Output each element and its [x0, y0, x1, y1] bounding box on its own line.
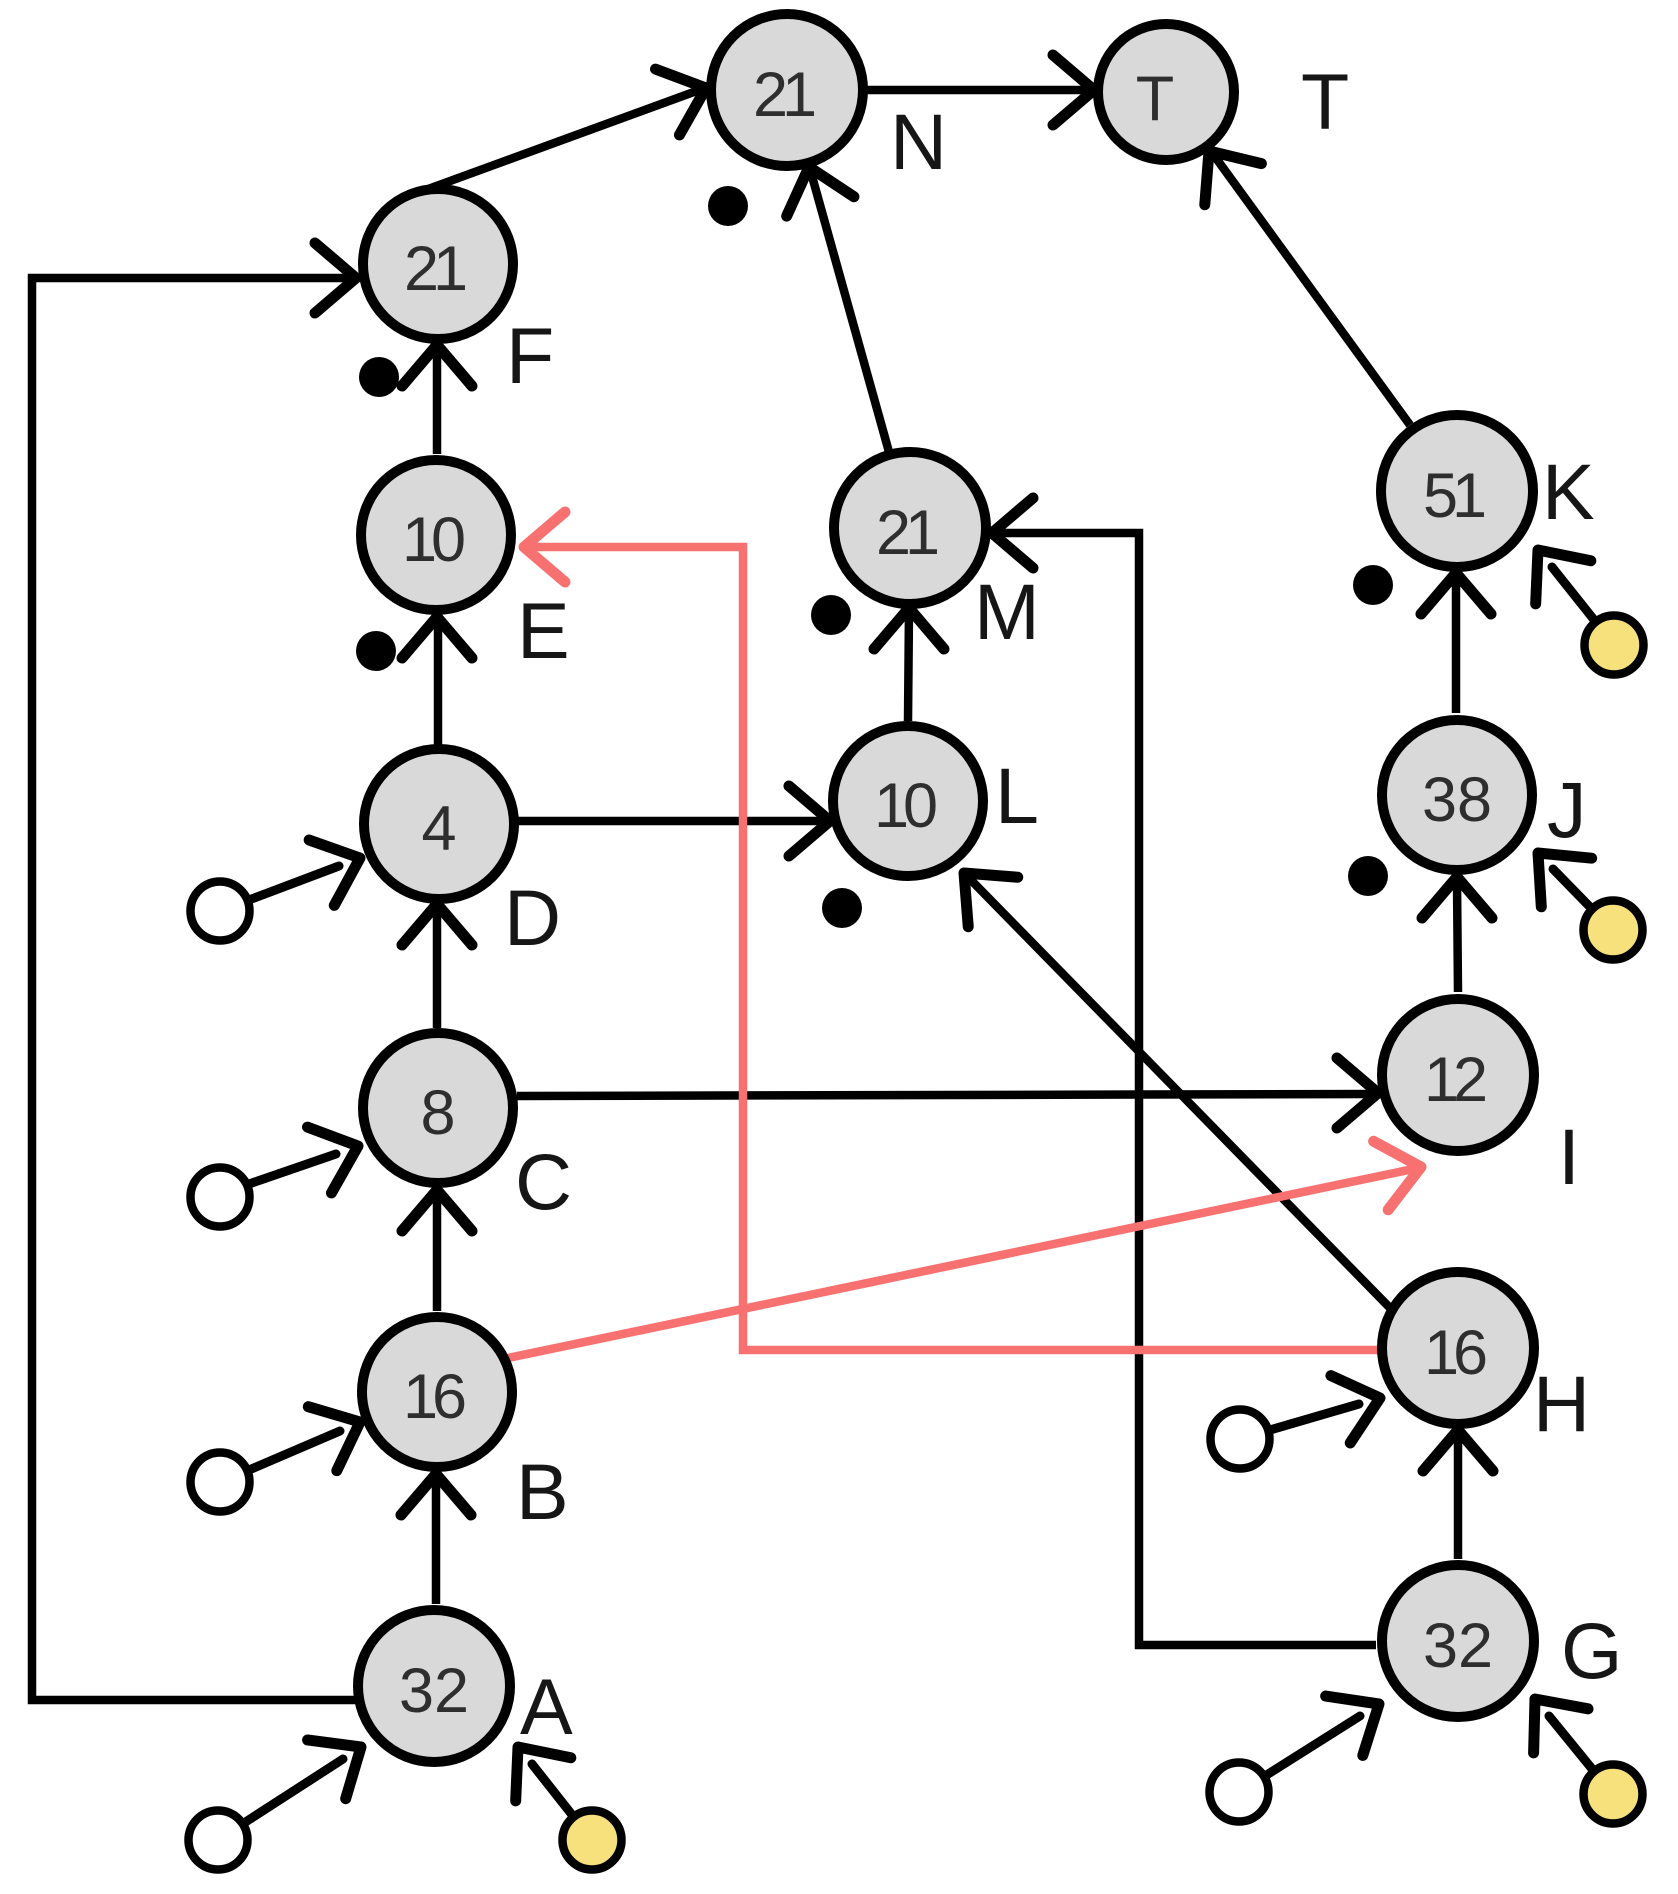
arrowhead into M from L	[874, 608, 944, 649]
arrowhead into I from C	[1337, 1058, 1378, 1128]
arrowhead into H from white input	[1331, 1364, 1390, 1443]
arrowhead into J from I	[1422, 877, 1492, 918]
svg-text:32: 32	[1423, 1611, 1493, 1681]
arrowhead into K from yellow input	[1510, 528, 1590, 603]
wire white input to C	[249, 1154, 336, 1184]
wire yellow input to J	[1553, 869, 1591, 908]
node T	[1098, 24, 1234, 160]
svg-text:21: 21	[876, 498, 937, 568]
white input circle for H	[1211, 1410, 1270, 1469]
dot marker at J	[1348, 856, 1388, 896]
arrowhead into F from loop	[315, 243, 356, 313]
svg-text:B: B	[516, 1447, 569, 1536]
svg-text:10: 10	[402, 505, 464, 575]
arrowhead into K from J	[1421, 573, 1491, 614]
arrowhead into A from yellow input	[490, 1725, 570, 1800]
svg-text:38: 38	[1422, 765, 1492, 835]
white input circle for B	[191, 1453, 250, 1512]
yellow input circle for J	[1584, 901, 1643, 960]
dot marker at M	[811, 595, 851, 635]
svg-text:E: E	[517, 586, 570, 675]
svg-text:K: K	[1542, 447, 1595, 536]
wire white input to B	[249, 1431, 340, 1470]
svg-text:21: 21	[404, 234, 465, 304]
arrowhead into T from K	[1181, 130, 1262, 204]
node E	[361, 460, 511, 610]
node H	[1382, 1272, 1534, 1424]
arrowhead into D from C	[402, 904, 472, 945]
svg-text:10: 10	[874, 771, 936, 841]
wire yellow input to K	[1552, 567, 1595, 621]
svg-text:12: 12	[1424, 1045, 1485, 1115]
wire K to T	[1213, 154, 1410, 425]
yellow input circle for G	[1584, 1765, 1643, 1824]
svg-text:T: T	[1301, 57, 1349, 146]
svg-text:N: N	[890, 97, 947, 186]
svg-text:F: F	[506, 311, 554, 400]
white input circle for C	[191, 1168, 250, 1227]
wire B to I (red)	[508, 1168, 1418, 1358]
arrowhead into L from H	[939, 848, 1017, 926]
wire C to I	[517, 1094, 1374, 1096]
wire yellow input to A	[532, 1764, 573, 1816]
svg-text:4: 4	[421, 794, 456, 864]
svg-text:21: 21	[753, 60, 814, 130]
arrowhead into E from D	[402, 617, 472, 658]
dot marker at L	[822, 888, 862, 928]
arrowhead into T from N	[1053, 55, 1094, 125]
arrowhead into C from B	[402, 1190, 472, 1231]
svg-text:G: G	[1561, 1606, 1622, 1695]
wire L to M	[908, 610, 909, 721]
dot marker at E	[356, 631, 396, 671]
wire white input to D	[249, 866, 339, 900]
dot marker at K	[1353, 565, 1393, 605]
arrowhead into B from A	[401, 1474, 471, 1515]
svg-text:51: 51	[1423, 461, 1484, 531]
arrowhead into G from yellow input	[1508, 1677, 1588, 1753]
svg-text:L: L	[995, 751, 1039, 840]
wire F to N	[420, 89, 702, 192]
node A	[358, 1610, 510, 1762]
wire white input to G	[1265, 1716, 1360, 1776]
svg-text:16: 16	[403, 1362, 465, 1432]
node G	[1382, 1565, 1534, 1717]
wire G to H	[1454, 1434, 1463, 1559]
wire N to T	[864, 86, 1090, 95]
svg-text:H: H	[1533, 1359, 1590, 1448]
svg-text:T: T	[1136, 64, 1174, 134]
arrowhead into F from E	[402, 345, 472, 386]
node L	[833, 726, 983, 876]
wire white input to A	[244, 1759, 343, 1823]
svg-text:16: 16	[1424, 1318, 1486, 1388]
white input circle for A	[189, 1811, 248, 1870]
yellow input circle for A	[563, 1811, 622, 1870]
yellow input circle for K	[1585, 616, 1644, 675]
svg-text:32: 32	[399, 1656, 469, 1726]
node D	[364, 749, 514, 899]
wire A to B	[432, 1476, 441, 1604]
wire J to K	[1452, 577, 1461, 713]
arrowhead into C from white input	[308, 1113, 370, 1193]
arrowhead into G from white input	[1326, 1674, 1398, 1755]
arrowhead into E from H (red)	[524, 512, 565, 582]
svg-text:J: J	[1547, 765, 1587, 854]
wire D to E	[434, 619, 443, 745]
node F	[363, 189, 513, 339]
node C	[363, 1033, 513, 1183]
svg-text:I: I	[1558, 1112, 1580, 1201]
dot marker at N	[708, 186, 748, 226]
svg-text:8: 8	[420, 1078, 455, 1148]
svg-text:M: M	[974, 567, 1040, 656]
node M	[834, 452, 986, 604]
wire C to D	[433, 906, 442, 1028]
wire E to F	[433, 347, 442, 454]
wire D to L	[517, 817, 827, 826]
arrowhead into N from M	[775, 157, 854, 216]
node B	[362, 1317, 512, 1467]
node K	[1381, 415, 1533, 567]
wire yellow input to G	[1549, 1716, 1593, 1770]
arrowhead into H from G	[1423, 1430, 1493, 1471]
wire A to F (left loop)	[32, 278, 358, 1700]
node I	[1382, 999, 1534, 1151]
svg-text:D: D	[504, 873, 561, 962]
arrowhead into A from white input	[308, 1718, 381, 1799]
dot marker at F	[359, 357, 399, 397]
arrowhead into J from yellow input	[1513, 829, 1592, 907]
wire H to E (red)	[528, 547, 1378, 1350]
white input circle for D	[191, 882, 250, 941]
wire B to C	[433, 1192, 442, 1311]
wire I to J	[1457, 881, 1458, 992]
arrowhead into M from G	[992, 498, 1033, 568]
node N	[711, 14, 863, 166]
wire M to N	[810, 169, 889, 452]
white input circle for G	[1210, 1763, 1269, 1822]
wire white input to H	[1270, 1404, 1359, 1430]
node J	[1382, 720, 1532, 870]
arrowhead into L from D	[789, 786, 830, 856]
wire H to L	[967, 876, 1394, 1312]
arrowhead into B from white input	[308, 1390, 374, 1471]
arrowhead into N from F	[656, 55, 718, 135]
arrowhead into I from B (red)	[1374, 1133, 1429, 1210]
wire G to M	[996, 533, 1376, 1645]
arrowhead into D from white input	[309, 825, 372, 905]
svg-text:C: C	[515, 1137, 572, 1226]
svg-text:A: A	[520, 1662, 573, 1751]
